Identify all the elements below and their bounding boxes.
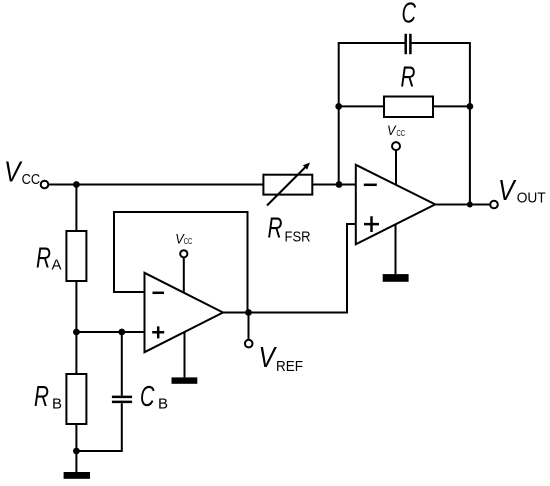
svg-text:R: R <box>36 242 51 274</box>
svg-text:R: R <box>268 213 283 245</box>
svg-text:V: V <box>4 157 23 189</box>
svg-text:FSR: FSR <box>285 229 311 246</box>
svg-text:A: A <box>52 257 62 274</box>
svg-text:CC: CC <box>22 171 41 188</box>
svg-text:CC: CC <box>397 129 406 138</box>
svg-text:CC: CC <box>184 237 193 246</box>
svg-text:B: B <box>158 396 168 413</box>
svg-text:R: R <box>401 62 416 94</box>
svg-text:R: R <box>34 381 49 413</box>
svg-text:V: V <box>259 342 278 374</box>
svg-text:REF: REF <box>276 358 303 375</box>
svg-text:OUT: OUT <box>517 190 546 207</box>
svg-text:B: B <box>52 396 62 413</box>
svg-text:C: C <box>140 381 155 413</box>
svg-text:C: C <box>402 0 417 29</box>
svg-text:V: V <box>498 175 517 207</box>
